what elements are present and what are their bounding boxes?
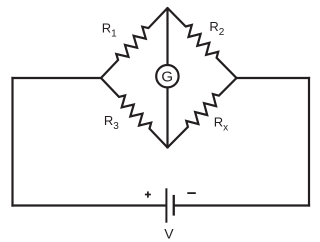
- battery V positive plate (long): [165, 188, 167, 222]
- svg-text:G: G: [161, 69, 173, 86]
- wire: bottom-right horizontal from battery - plate to right rail: [173, 204, 310, 206]
- wire: top-left horizontal from left rail to bridge left node A: [11, 77, 102, 79]
- svg-text:Rx: Rx: [214, 115, 228, 134]
- resistor R1 (top-left bridge arm, node A to top node C): [101, 8, 168, 78]
- resistor R2 (top-right bridge arm, top node C to node B): [168, 8, 237, 78]
- svg-text:V: V: [164, 226, 174, 242]
- resistor Rx (bottom-right bridge arm, bottom node D to node B): [168, 78, 237, 148]
- wire: bottom-left horizontal from left rail to battery + plate: [11, 204, 167, 206]
- galvanometer U1 circle: [156, 65, 178, 87]
- wire: left vertical rail: [11, 77, 13, 207]
- battery polarity + sign: [145, 191, 151, 197]
- svg-text:R2: R2: [209, 19, 224, 38]
- svg-text:R3: R3: [104, 113, 119, 132]
- wire: top-right horizontal from bridge right node B to right rail: [235, 77, 310, 79]
- svg-text:R1: R1: [102, 21, 117, 40]
- wire: right vertical rail: [308, 77, 310, 207]
- wire: galvanometer branch upper (top node C down to G): [166, 8, 168, 65]
- wire: galvanometer branch lower (G down to bottom node D): [166, 88, 168, 148]
- battery polarity - sign: [187, 192, 196, 194]
- battery V negative plate (short): [173, 195, 175, 216]
- resistor R3 (bottom-left bridge arm, node A to bottom node D): [101, 78, 168, 148]
